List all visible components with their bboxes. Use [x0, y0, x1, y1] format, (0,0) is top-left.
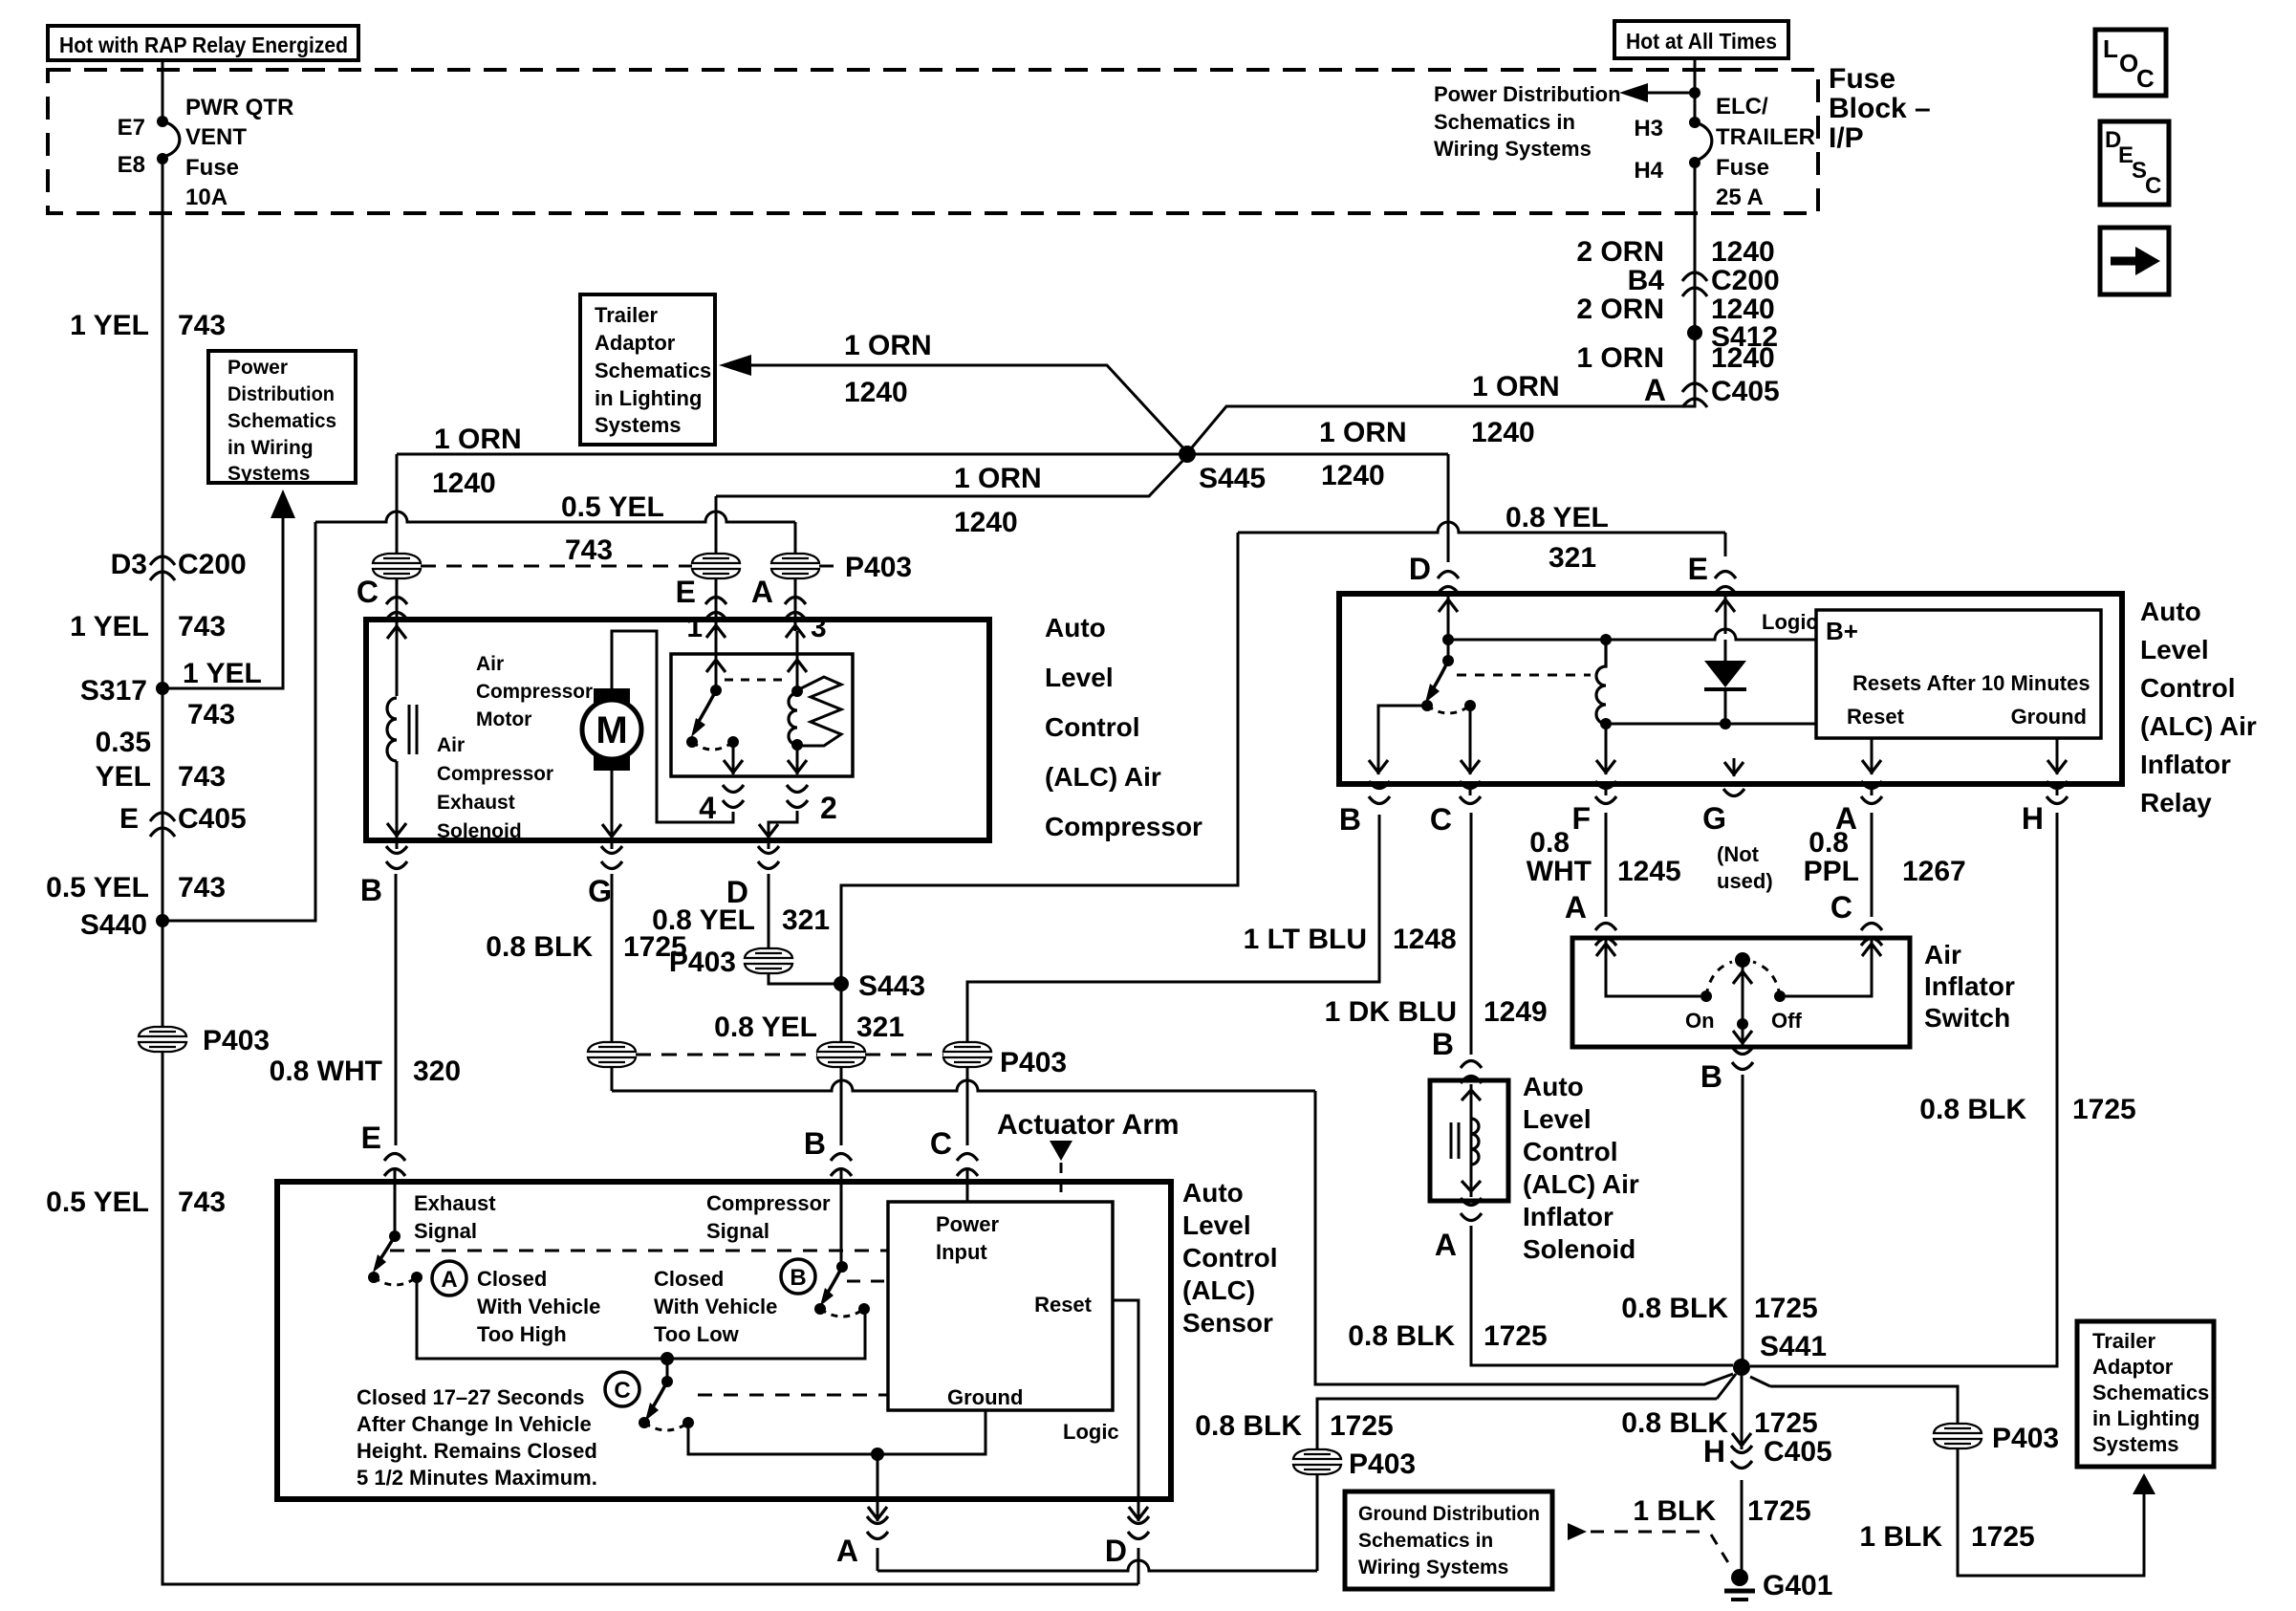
- svg-text:1245: 1245: [1617, 856, 1681, 887]
- svg-text:321: 321: [1549, 542, 1596, 574]
- svg-text:Auto: Auto: [1045, 613, 1106, 642]
- svg-text:Fuse: Fuse: [185, 155, 239, 181]
- connector row P403 (C/E/A) with dashed link: [373, 552, 912, 583]
- sensor switch A (exhaust): [368, 1230, 422, 1285]
- svg-text:Logic: Logic: [1762, 610, 1818, 634]
- splice S445: [1179, 446, 1266, 494]
- splice S443: [834, 970, 925, 1002]
- svg-text:1 YEL: 1 YEL: [70, 310, 149, 341]
- splice S412: [1687, 321, 1778, 353]
- svg-text:321: 321: [856, 1012, 904, 1043]
- svg-text:0.8 BLK: 0.8 BLK: [1195, 1410, 1302, 1442]
- relay pin 1 wire and switch pivot: [686, 612, 726, 696]
- fuse PWR QTR VENT 10A (E7/E8): [118, 60, 294, 210]
- icon box DESC: [2100, 121, 2169, 205]
- svg-text:With Vehicle: With Vehicle: [477, 1295, 600, 1318]
- svg-text:C200: C200: [178, 549, 247, 580]
- connector A C405: [1644, 373, 1780, 407]
- svg-text:1 BLK: 1 BLK: [1633, 1495, 1716, 1527]
- svg-text:B4: B4: [1628, 265, 1665, 296]
- label: Fuse Block - I/P: [1829, 63, 1931, 154]
- label: Air Compressor Motor: [476, 653, 593, 730]
- svg-text:Systems: Systems: [2092, 1432, 2179, 1456]
- component box: ALC Air Inflator Solenoid: [1430, 1080, 1508, 1201]
- svg-text:C405: C405: [178, 803, 247, 835]
- wire 1 BLK 1725 S441 to trailer adaptor via P403: [1770, 1386, 2155, 1576]
- svg-text:Control: Control: [1523, 1137, 1618, 1166]
- relay diode: [1704, 640, 1746, 724]
- svg-text:Sensor: Sensor: [1182, 1308, 1273, 1338]
- wire 1 ORN 1240 trunk right of S445 down to relay D: [1187, 417, 1448, 562]
- circle label B: [781, 1259, 815, 1294]
- svg-text:Compressor: Compressor: [437, 763, 553, 785]
- component box: Auto Level Control (ALC) Air Inflator Relay: [1339, 594, 2122, 784]
- component box: Air Inflator Switch: [1572, 938, 1910, 1047]
- wire 1 BLK 1725 to ground G401: [1633, 1480, 1810, 1572]
- sensor dashed linkage line 3: [698, 1394, 888, 1397]
- connector P403 on left wire: [139, 1025, 270, 1056]
- svg-text:1 YEL: 1 YEL: [70, 611, 149, 642]
- sensor logic reset wire to pin D: [1113, 1300, 1138, 1499]
- relay logic reset output to pin A: [1862, 738, 1881, 774]
- svg-text:B: B: [804, 1126, 826, 1161]
- relay logic ground output to pin H: [2047, 738, 2067, 774]
- svg-text:S441: S441: [1760, 1331, 1827, 1362]
- svg-text:PWR QTR: PWR QTR: [185, 95, 293, 120]
- relay pin G exit (not used): [1702, 789, 1773, 893]
- relay switch to pin C wire: [1461, 706, 1480, 774]
- svg-text:E: E: [361, 1121, 381, 1155]
- svg-text:1725: 1725: [2072, 1094, 2136, 1125]
- svg-text:1725: 1725: [1484, 1320, 1548, 1352]
- svg-text:VENT: VENT: [185, 124, 247, 150]
- svg-text:2 ORN: 2 ORN: [1576, 294, 1664, 325]
- relay pin A exit: [1835, 781, 1882, 836]
- inflator switch pin C to Off contact: [1771, 938, 1881, 1033]
- wire 1 DK BLU 1249 relay C to inflator solenoid B: [1325, 784, 1548, 1083]
- sensor pin E entry: [361, 1121, 405, 1234]
- svg-text:0.8 BLK: 0.8 BLK: [486, 931, 593, 963]
- svg-text:10A: 10A: [185, 185, 227, 210]
- svg-text:25 A: 25 A: [1716, 185, 1764, 210]
- svg-text:743: 743: [565, 534, 613, 566]
- svg-text:B: B: [360, 873, 382, 907]
- wire 0.8 YEL 321 from S443 down to sensor B: [714, 984, 904, 1145]
- svg-text:Trailer: Trailer: [2092, 1329, 2155, 1353]
- label: Compressor Signal: [706, 1191, 831, 1243]
- svg-text:C405: C405: [1764, 1436, 1832, 1468]
- svg-text:Inflator: Inflator: [1523, 1202, 1614, 1231]
- sensor dashed linkage line 2: [847, 1280, 888, 1283]
- label 0.35 YEL 743: [96, 727, 226, 793]
- wire 1 ORN 1240 from A C405 connector to S445: [1187, 213, 1695, 453]
- svg-text:Level: Level: [1523, 1104, 1592, 1134]
- svg-text:H4: H4: [1634, 158, 1663, 184]
- svg-text:D3: D3: [111, 549, 147, 580]
- svg-text:Auto: Auto: [1523, 1072, 1584, 1101]
- relay pin H exit: [2022, 781, 2068, 836]
- svg-text:Schematics in: Schematics in: [1358, 1530, 1493, 1552]
- svg-text:S440: S440: [80, 909, 147, 941]
- label: Auto Level Control (ALC) Air Compressor: [1045, 613, 1202, 841]
- svg-text:320: 320: [413, 1056, 461, 1087]
- svg-text:Schematics in: Schematics in: [1434, 110, 1575, 134]
- wire trunk drop to compressor C: [396, 454, 399, 554]
- dashed arrow to ground distribution: [1568, 1523, 1732, 1569]
- compressor pin E entry: [676, 575, 726, 620]
- svg-text:G: G: [1702, 801, 1726, 836]
- relay logic box with B+ Resets After 10 Minutes: [1762, 610, 2101, 738]
- sensor switch C (timer): [639, 1359, 694, 1430]
- relay pin G stub (not used): [1724, 758, 1744, 776]
- wire motor positive to relay pin 4: [612, 631, 733, 822]
- svg-text:0.5 YEL: 0.5 YEL: [46, 872, 149, 903]
- svg-text:Air: Air: [437, 734, 465, 756]
- svg-text:WHT: WHT: [1527, 856, 1592, 887]
- svg-text:P403: P403: [1349, 1448, 1416, 1480]
- air compressor exhaust solenoid coil: [387, 620, 417, 838]
- label: Auto Level Control (ALC) Air Inflator Solenoid: [1523, 1072, 1639, 1264]
- svg-text:B: B: [1432, 1027, 1454, 1061]
- svg-text:4: 4: [699, 791, 716, 825]
- svg-text:743: 743: [178, 310, 226, 341]
- svg-text:1240: 1240: [1321, 460, 1385, 491]
- svg-text:Resets After 10 Minutes: Resets After 10 Minutes: [1852, 671, 2090, 695]
- svg-text:(Not: (Not: [1717, 842, 1760, 866]
- wire: 1 YEL 743 left feed from fuse E8 down and along bottom: [162, 159, 1138, 1584]
- connector row P403 (second row): [588, 1042, 1067, 1078]
- svg-text:0.8 WHT: 0.8 WHT: [270, 1056, 382, 1087]
- svg-text:743: 743: [178, 1186, 226, 1218]
- svg-text:in Lighting: in Lighting: [595, 386, 702, 410]
- svg-text:Closed 17–27 Seconds: Closed 17–27 Seconds: [357, 1385, 584, 1409]
- svg-text:Schematics: Schematics: [595, 359, 711, 382]
- label box: Hot with RAP Relay Energized: [48, 26, 358, 60]
- fuse block dashed outline: [48, 70, 1818, 213]
- svg-text:Inflator: Inflator: [1924, 971, 2015, 1001]
- svg-text:Reset: Reset: [1847, 705, 1905, 729]
- svg-text:P403: P403: [1000, 1047, 1067, 1078]
- connector P403 on D wire: [669, 947, 834, 984]
- svg-text:Air: Air: [1924, 940, 1961, 969]
- wire 0.8 YEL 321 from S443 up to relay pin E: [841, 502, 1725, 984]
- svg-text:H3: H3: [1634, 116, 1663, 142]
- svg-text:1 LT BLU: 1 LT BLU: [1244, 924, 1367, 955]
- svg-text:Fuse: Fuse: [1716, 155, 1769, 181]
- note box: Power Distribution Schematics in Wiring Systems: [208, 351, 356, 485]
- ground G401: [1724, 1569, 1832, 1601]
- wire 0.8 YEL 321 from D to S443: [652, 840, 830, 948]
- relay coil winding: [789, 693, 803, 751]
- svg-text:Auto: Auto: [2140, 597, 2201, 626]
- svg-text:Logic: Logic: [1063, 1420, 1119, 1444]
- svg-text:TRAILER: TRAILER: [1716, 124, 1815, 150]
- svg-text:Signal: Signal: [414, 1219, 477, 1243]
- svg-text:(ALC) Air: (ALC) Air: [1523, 1169, 1639, 1199]
- svg-text:(ALC) Air: (ALC) Air: [1045, 762, 1161, 792]
- splice S317: [80, 675, 169, 707]
- relay coil: [1596, 640, 1615, 774]
- air compressor motor M: [582, 688, 641, 771]
- svg-text:Distribution: Distribution: [227, 383, 335, 405]
- note: Closed With Vehicle Too Low: [654, 1267, 777, 1346]
- svg-text:C405: C405: [1711, 376, 1780, 407]
- svg-text:A: A: [1565, 890, 1587, 925]
- note: Closed 17-27 Seconds timer text: [357, 1385, 597, 1490]
- svg-text:S443: S443: [858, 970, 925, 1002]
- compressor pin D exit: [726, 846, 779, 909]
- svg-text:Adaptor: Adaptor: [595, 331, 676, 355]
- svg-text:Level: Level: [2140, 635, 2209, 664]
- svg-text:E: E: [1688, 552, 1708, 586]
- svg-text:1 ORN: 1 ORN: [844, 330, 932, 361]
- label 0.5 YEL 743 (lower): [46, 1186, 226, 1218]
- svg-text:P403: P403: [1992, 1423, 2059, 1454]
- relay pin C exit: [1430, 781, 1481, 837]
- svg-text:S317: S317: [80, 675, 147, 707]
- svg-text:0.8 BLK: 0.8 BLK: [1621, 1293, 1728, 1324]
- svg-text:Auto: Auto: [1182, 1178, 1244, 1208]
- svg-text:ELC/: ELC/: [1716, 94, 1768, 120]
- svg-text:in Lighting: in Lighting: [2092, 1406, 2199, 1430]
- relay pin F exit: [1571, 781, 1616, 836]
- svg-text:Motor: Motor: [476, 708, 531, 730]
- label 1 YEL 743 (upper): [70, 310, 226, 341]
- svg-text:Switch: Switch: [1924, 1003, 2010, 1033]
- svg-text:1 ORN: 1 ORN: [1472, 371, 1560, 403]
- svg-text:(ALC): (ALC): [1182, 1275, 1255, 1305]
- svg-text:1 DK BLU: 1 DK BLU: [1325, 996, 1457, 1028]
- svg-text:Reset: Reset: [1034, 1293, 1093, 1317]
- icon box LOC: [2095, 30, 2166, 96]
- svg-text:in Wiring: in Wiring: [227, 437, 314, 459]
- svg-text:1240: 1240: [954, 507, 1018, 538]
- svg-text:Level: Level: [1182, 1210, 1251, 1240]
- svg-text:1: 1: [686, 612, 703, 643]
- svg-text:0.5 YEL: 0.5 YEL: [561, 491, 664, 523]
- svg-text:A: A: [441, 1267, 457, 1293]
- sensor pin B entry: [804, 1126, 852, 1267]
- svg-text:0.8 YEL: 0.8 YEL: [1505, 502, 1609, 533]
- svg-text:1725: 1725: [1754, 1407, 1818, 1439]
- svg-text:1248: 1248: [1393, 924, 1457, 955]
- arrow to Power Distribution Schematics: [1434, 82, 1700, 161]
- svg-text:Solenoid: Solenoid: [437, 820, 522, 842]
- relay switch to pin B wire: [1369, 706, 1427, 774]
- svg-text:Hot with RAP Relay Energized: Hot with RAP Relay Energized: [59, 33, 348, 57]
- svg-text:C: C: [614, 1378, 630, 1404]
- svg-text:After Change In Vehicle: After Change In Vehicle: [357, 1412, 592, 1436]
- svg-text:5 1/2 Minutes Maximum.: 5 1/2 Minutes Maximum.: [357, 1466, 597, 1490]
- svg-text:2 ORN: 2 ORN: [1576, 236, 1664, 268]
- label 2 ORN 1240 (row 2): [1576, 294, 1774, 325]
- svg-text:A: A: [1435, 1228, 1457, 1262]
- relay pin 2 (coil output) to pin D: [759, 745, 837, 838]
- svg-text:Too High: Too High: [477, 1322, 567, 1346]
- compressor pin A entry: [751, 575, 806, 620]
- svg-text:B: B: [1700, 1059, 1722, 1094]
- svg-text:E: E: [676, 575, 696, 609]
- svg-text:P403: P403: [669, 947, 736, 978]
- svg-text:Closed: Closed: [477, 1267, 547, 1291]
- svg-text:Schematics: Schematics: [227, 410, 336, 432]
- svg-text:1240: 1240: [1471, 417, 1535, 448]
- connector B4 C200: [1628, 265, 1780, 296]
- label: Air Inflator Switch: [1924, 940, 2015, 1033]
- fuse ELC/TRAILER 25A (H3/H4): [1634, 58, 1815, 213]
- relay internal switch: [1421, 640, 1591, 713]
- svg-text:G401: G401: [1763, 1570, 1832, 1601]
- svg-text:C: C: [1830, 890, 1852, 925]
- compressor pin G exit: [588, 846, 622, 908]
- svg-text:0.8 BLK: 0.8 BLK: [1348, 1320, 1455, 1352]
- svg-text:1725: 1725: [1754, 1293, 1818, 1324]
- svg-text:2: 2: [820, 791, 837, 825]
- label box: Hot at All Times: [1614, 21, 1788, 58]
- svg-text:Level: Level: [1045, 663, 1114, 692]
- sensor pin A exit (ground): [836, 1454, 888, 1571]
- connector P403 on trailer wire: [1934, 1423, 2059, 1454]
- svg-text:Compressor: Compressor: [476, 681, 593, 703]
- svg-text:Exhaust: Exhaust: [414, 1191, 496, 1215]
- wire branch S317 to Power Distribution box with labels 1 YEL 743: [162, 490, 295, 730]
- svg-text:Input: Input: [936, 1240, 987, 1264]
- svg-text:Fuse: Fuse: [1829, 63, 1895, 95]
- note: Closed With Vehicle Too High: [477, 1267, 600, 1346]
- inflator switch common pole: [1706, 952, 1780, 1045]
- svg-text:P403: P403: [845, 552, 912, 583]
- svg-text:Exhaust: Exhaust: [437, 792, 515, 814]
- sensor switch A/B output bus: [417, 1277, 865, 1365]
- svg-text:743: 743: [178, 872, 226, 903]
- compressor pin B exit: [360, 846, 407, 907]
- svg-text:1725: 1725: [1747, 1495, 1811, 1527]
- svg-text:743: 743: [178, 611, 226, 642]
- wire 1 ORN 1240 to trailer adaptor with left arrowhead: [719, 330, 1187, 452]
- svg-text:Off: Off: [1771, 1009, 1802, 1033]
- svg-text:Height. Remains Closed: Height. Remains Closed: [357, 1439, 597, 1463]
- label: Auto Level Control (ALC) Air Inflator Relay: [2140, 597, 2257, 817]
- svg-text:Adaptor: Adaptor: [2092, 1355, 2174, 1379]
- svg-text:0.5 YEL: 0.5 YEL: [46, 1186, 149, 1218]
- svg-text:1 ORN: 1 ORN: [1319, 417, 1407, 448]
- svg-text:used): used): [1717, 869, 1773, 893]
- svg-text:L: L: [2103, 34, 2118, 63]
- svg-text:YEL: YEL: [96, 761, 151, 793]
- svg-text:Hot at All Times: Hot at All Times: [1626, 29, 1777, 54]
- inflator switch pin B to S441 (0.8 BLK 1725): [1621, 1047, 1817, 1360]
- actuator arm: [997, 1109, 1180, 1202]
- label 1 YEL 743 (second): [70, 611, 226, 642]
- sensor pin C entry to logic power input: [930, 1126, 978, 1202]
- svg-text:A: A: [836, 1534, 858, 1568]
- svg-text:1267: 1267: [1902, 856, 1966, 887]
- svg-text:F: F: [1571, 801, 1591, 836]
- svg-text:3: 3: [811, 612, 827, 643]
- svg-text:On: On: [1685, 1009, 1715, 1033]
- wire 0.5 YEL 743 from S440 branch to compressor A: [315, 491, 795, 566]
- wire 0.8 WHT 1245 relay F to inflator switch A: [1527, 784, 1681, 946]
- svg-text:G: G: [588, 874, 612, 908]
- svg-text:Actuator Arm: Actuator Arm: [997, 1109, 1180, 1141]
- svg-text:A: A: [1644, 373, 1666, 407]
- svg-text:1 BLK: 1 BLK: [1859, 1521, 1942, 1553]
- svg-text:E7: E7: [118, 115, 145, 141]
- svg-text:1 ORN: 1 ORN: [434, 424, 522, 455]
- svg-text:H: H: [1703, 1434, 1725, 1469]
- svg-text:Solenoid: Solenoid: [1523, 1234, 1635, 1264]
- wire 0.8 PPL 1267 relay A to inflator switch C: [1804, 784, 1966, 946]
- wire 1 ORN 1240 lower branch to compressor E: [716, 456, 1187, 554]
- label: Air Compressor Exhaust Solenoid: [437, 734, 553, 842]
- svg-text:Closed: Closed: [654, 1267, 724, 1291]
- svg-text:B: B: [1339, 802, 1361, 837]
- label 0.5 YEL 743 (mid): [46, 872, 226, 903]
- svg-text:Power: Power: [227, 357, 288, 379]
- svg-text:0.8: 0.8: [1529, 827, 1570, 859]
- svg-text:Inflator: Inflator: [2140, 750, 2231, 779]
- splice S441: [1717, 1331, 1827, 1399]
- label 2 ORN 1240 (row 1): [1576, 236, 1774, 268]
- inflator switch pin A to On contact: [1596, 938, 1715, 1033]
- component box: Auto Level Control (ALC) Sensor: [277, 1182, 1171, 1499]
- svg-text:B+: B+: [1826, 617, 1858, 645]
- wire 0.8 BLK 1725 S441 down to H C405: [1621, 1376, 1817, 1449]
- sensor pin D exit (reset): [1105, 1499, 1149, 1584]
- wire 0.8 BLK 1725 solenoid A to S441: [1348, 1198, 1733, 1365]
- relay internal bus from D to logic B+: [1442, 629, 1816, 645]
- svg-text:0.8 YEL: 0.8 YEL: [652, 904, 755, 936]
- svg-text:Control: Control: [2140, 673, 2236, 703]
- svg-text:Ground: Ground: [947, 1385, 1023, 1409]
- connector H C405: [1703, 1434, 1832, 1469]
- svg-text:Wiring Systems: Wiring Systems: [1434, 137, 1592, 161]
- icon box arrow: [2100, 228, 2169, 294]
- note box: Trailer Adaptor Schematics in Lighting Systems (top): [580, 294, 715, 445]
- svg-text:M: M: [596, 709, 627, 751]
- relay pin E entry: [1688, 552, 1736, 634]
- svg-text:A: A: [751, 575, 773, 609]
- relay coil pin 3 feed: [786, 612, 827, 697]
- svg-text:I/P: I/P: [1829, 122, 1864, 154]
- svg-text:Relay: Relay: [2140, 788, 2212, 817]
- svg-text:Trailer: Trailer: [595, 303, 658, 327]
- svg-text:1249: 1249: [1484, 996, 1548, 1028]
- svg-text:Control: Control: [1182, 1243, 1278, 1273]
- wire 0.8 BLK 1725 from G down to P403: [486, 840, 686, 1042]
- splice S440 with branch wire up to 0.5 YEL line: [80, 522, 315, 941]
- svg-text:1 ORN: 1 ORN: [954, 463, 1042, 494]
- wire 0.8 BLK 1725 G-line to S441 riser: [612, 1067, 1733, 1384]
- svg-text:Too Low: Too Low: [654, 1322, 740, 1346]
- svg-text:D: D: [1105, 1534, 1127, 1568]
- note box: Trailer Adaptor Schematics in Lighting Systems (bottom): [2077, 1321, 2214, 1467]
- svg-text:Air: Air: [476, 653, 504, 675]
- svg-text:Compressor: Compressor: [706, 1191, 831, 1215]
- wire sensor C riser to relay pin B (1 LT BLU 1248): [967, 815, 1457, 1145]
- svg-text:0.8: 0.8: [1809, 827, 1849, 859]
- connector E C405 (left): [119, 803, 247, 837]
- svg-text:PPL: PPL: [1804, 856, 1859, 887]
- svg-text:Systems: Systems: [227, 463, 310, 485]
- svg-text:743: 743: [187, 699, 235, 730]
- svg-text:1240: 1240: [844, 377, 908, 408]
- inflator solenoid coil: [1451, 1084, 1481, 1197]
- svg-text:C: C: [1430, 802, 1452, 837]
- svg-text:1240: 1240: [1711, 342, 1775, 374]
- svg-text:P403: P403: [203, 1025, 270, 1056]
- label 1 ORN 1240 (row 3): [1576, 342, 1774, 374]
